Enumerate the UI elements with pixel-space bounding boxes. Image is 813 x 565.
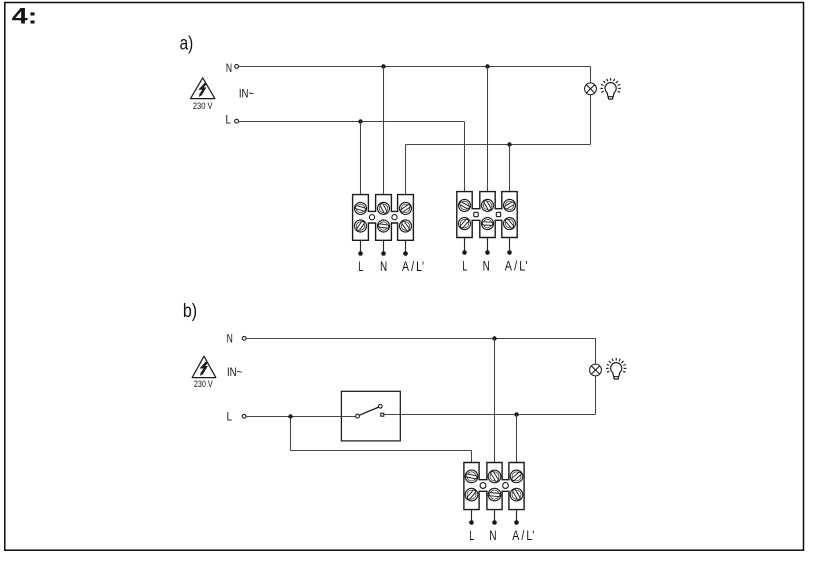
wire L branch down (b)	[290, 417, 292, 451]
wire X3 pin N stub down	[494, 510, 496, 522]
node L branch junction (b)	[288, 414, 292, 418]
wire X3 pin A/L&#39; stub down	[516, 510, 518, 522]
wire L drop to block2-L (a)	[464, 122, 466, 192]
wire N drop to lamp (a)	[590, 67, 592, 84]
wire X2 pin L stub down	[464, 238, 466, 252]
wire block2 N pin up (a)	[487, 67, 489, 192]
svg-text:IN~: IN~	[239, 86, 254, 100]
wire block1 N pin up (a)	[383, 67, 385, 195]
node X1 A/L&#39; end	[403, 251, 408, 256]
wire X1 pin N stub down	[383, 240, 385, 252]
terminal block X2	[456, 192, 518, 238]
svg-text:L: L	[226, 112, 231, 126]
node X3 N end	[492, 520, 497, 525]
svg-text:N: N	[489, 528, 496, 543]
node X3 A/L&#39; end	[514, 520, 519, 525]
wire N horizontal (a)	[239, 66, 591, 68]
node N to block2-N junction (a)	[485, 64, 489, 68]
svg-text:L: L	[462, 258, 467, 273]
svg-text:A / L': A / L'	[512, 528, 534, 543]
svg-text:A / L': A / L'	[505, 258, 528, 273]
node X2 A/L&#39; end	[507, 250, 512, 255]
wire lamp down (a)	[590, 95, 592, 145]
node N to block1-N junction (a)	[381, 64, 385, 68]
wire X2 pin A/L&#39; stub down	[509, 238, 511, 252]
lamp E1 (a)	[585, 83, 597, 95]
wire L branch horizontal (b)	[291, 450, 472, 452]
lamp E1 (b)	[590, 364, 602, 376]
svg-text:230 V: 230 V	[193, 101, 213, 111]
svg-text:N: N	[380, 259, 387, 274]
terminal N (b)	[242, 336, 246, 340]
node X3 L end	[469, 520, 474, 525]
svg-text:L: L	[227, 409, 232, 423]
mains warning triangle (230 V) b	[192, 356, 216, 389]
node X1 N end	[381, 251, 386, 256]
svg-text:4:: 4:	[12, 4, 38, 29]
terminal block X1	[352, 195, 414, 241]
wire L branch to block (b)	[471, 451, 473, 463]
node X2 L end	[462, 250, 467, 255]
wire X2 pin N stub down	[487, 238, 489, 252]
wire L horizontal (a)	[239, 121, 465, 123]
wire X3 pin L stub down	[471, 510, 473, 522]
bulb glow icon (b)	[606, 358, 626, 379]
node X2 N end	[485, 250, 490, 255]
wire switched-line horizontal (a)	[406, 144, 591, 146]
bulb glow icon (a)	[600, 78, 620, 99]
svg-text:a): a)	[180, 33, 194, 54]
node N junction (b)	[492, 336, 496, 340]
wire block1 L pin up (a)	[360, 122, 362, 195]
node X1 L end	[358, 251, 363, 256]
svg-text:N: N	[227, 332, 233, 346]
svg-text:230 V: 230 V	[194, 379, 213, 389]
terminal L (b)	[242, 414, 246, 418]
mains warning triangle (230 V) a	[191, 78, 215, 111]
node switched/A-L&#39; junction (b)	[514, 412, 518, 416]
switch S1 contacts and blade (b)	[341, 405, 400, 419]
wire block1 A/L&#39; pin up (a)	[405, 145, 407, 195]
wire L to switch (b)	[246, 416, 341, 418]
node A/L&#39; junction (a)	[507, 142, 511, 146]
wire block N pin up (b)	[494, 339, 496, 463]
svg-text:A / L': A / L'	[402, 259, 424, 274]
wire N horizontal (b)	[246, 338, 595, 340]
wire block2 A/L&#39; pin up (a)	[509, 145, 511, 192]
wire switched line (b)	[400, 414, 595, 416]
node L to block1-L junction (a)	[358, 119, 362, 123]
wire N drop to lamp (b)	[595, 339, 597, 365]
svg-text:b): b)	[183, 301, 197, 322]
svg-text:L: L	[358, 259, 363, 274]
svg-text:L: L	[469, 528, 474, 543]
svg-text:N: N	[226, 61, 232, 75]
terminal N (a)	[235, 65, 239, 69]
terminal L (a)	[235, 119, 239, 123]
wire lamp down (b)	[595, 376, 597, 415]
svg-text:N: N	[483, 258, 490, 273]
svg-text:IN~: IN~	[227, 365, 242, 379]
wire X1 pin A/L&#39; stub down	[405, 240, 407, 252]
terminal block X3	[463, 463, 526, 510]
wire block A/L&#39; pin up (b)	[516, 415, 518, 463]
wire X1 pin L stub down	[360, 240, 362, 252]
switch S1 box (b)	[341, 391, 400, 441]
